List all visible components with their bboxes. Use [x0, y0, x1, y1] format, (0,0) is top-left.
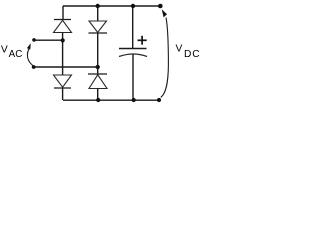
wire right leg upper: [97, 6, 99, 21]
node bottom rail / capacitor junction: [132, 98, 136, 102]
V_AC arrow (curved, arrowhead up toward top terminal): [27, 43, 33, 66]
wire right leg mid: [97, 33, 99, 74]
label + polarity: [138, 36, 147, 45]
wire bottom rail: [63, 99, 159, 101]
node bottom rail / right leg junction: [96, 98, 100, 102]
V_DC arrow (curved, arrowhead up toward + terminal): [161, 9, 169, 97]
wire top rail: [63, 5, 161, 7]
wire left leg lower: [62, 88, 64, 100]
capacitor C1 top lead: [132, 6, 134, 49]
node V_DC + terminal: [158, 4, 163, 9]
wire left leg upper: [62, 6, 64, 20]
wire left leg mid (triangle base to mid-left node): [62, 33, 64, 76]
node AC top terminal: [32, 38, 36, 42]
node top rail / capacitor junction: [131, 4, 135, 8]
diode D3 top-right (pointing down): [89, 21, 108, 33]
node top rail / right leg junction: [96, 4, 100, 8]
diode D4 bottom-right (pointing up): [88, 74, 107, 89]
capacitor C1 plates: [119, 49, 147, 57]
node V_DC - terminal: [157, 98, 161, 102]
wire AC bottom lead: [34, 66, 98, 68]
node mid-right junction: [96, 65, 100, 69]
capacitor C1 bottom lead: [132, 54, 134, 100]
diode D2 bottom-left (pointing down): [54, 75, 72, 88]
node mid-left junction: [61, 38, 65, 42]
svg-text:VAC: VAC: [1, 45, 23, 60]
diode D1 top-left (pointing up): [54, 20, 72, 33]
wire right leg lower: [97, 89, 99, 101]
node AC bottom terminal: [32, 65, 36, 69]
wire AC top lead: [34, 39, 63, 41]
svg-text:VDC: VDC: [176, 43, 201, 59]
